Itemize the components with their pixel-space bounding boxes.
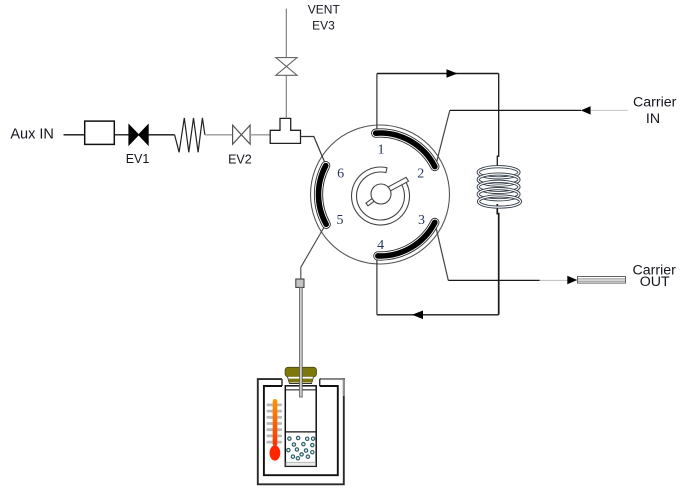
svg-text:Aux IN: Aux IN	[10, 127, 54, 143]
svg-text:Carrier: Carrier	[633, 94, 677, 110]
svg-text:EV2: EV2	[228, 152, 252, 166]
svg-text:1: 1	[378, 143, 385, 158]
svg-text:VENT: VENT	[308, 3, 341, 17]
svg-text:6: 6	[337, 167, 344, 182]
svg-text:EV3: EV3	[312, 18, 335, 32]
svg-text:2: 2	[417, 167, 424, 182]
svg-text:4: 4	[377, 238, 384, 253]
svg-text:5: 5	[337, 213, 344, 228]
svg-text:3: 3	[418, 213, 425, 228]
svg-text:IN: IN	[646, 111, 660, 127]
svg-text:OUT: OUT	[640, 274, 670, 290]
svg-text:EV1: EV1	[126, 152, 150, 166]
